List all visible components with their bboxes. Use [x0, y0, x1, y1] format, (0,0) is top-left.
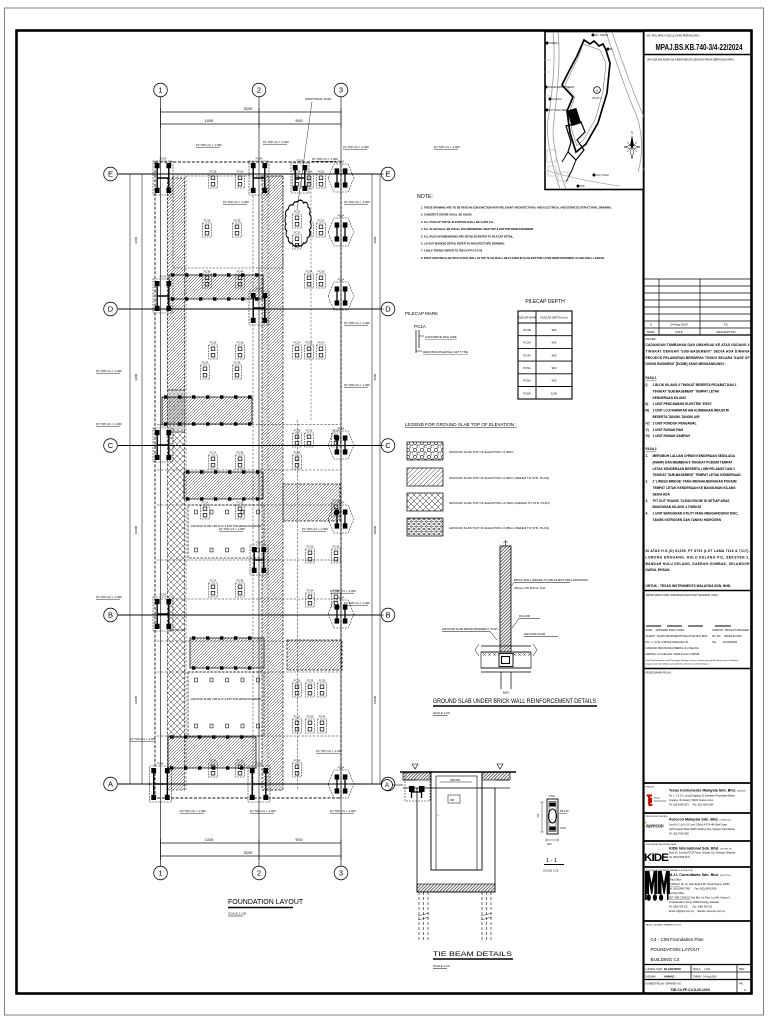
svg-text:2T16: 2T16	[549, 794, 555, 798]
svg-text:SCALE 1:20: SCALE 1:20	[433, 711, 450, 715]
slab section	[481, 646, 531, 672]
beam dim labels	[440, 781, 472, 783]
svg-text:6. LAYOUT MARKED DETAIL REFER: 6. LAYOUT MARKED DETAIL REFER TO ARCHITE…	[421, 242, 505, 246]
black site marker	[567, 108, 581, 126]
svg-text:1: 1	[158, 86, 162, 95]
svg-text:PC TOP LVL = -1.800: PC TOP LVL = -1.800	[330, 809, 356, 813]
svg-text:TEL : 03-42000000: TEL : 03-42000000	[712, 641, 738, 644]
svg-text:BUILDING C4: BUILDING C4	[651, 957, 680, 962]
svg-text:PC6A: PC6A	[338, 214, 345, 218]
svg-text:3: 3	[339, 86, 343, 95]
svg-text:B: B	[108, 611, 113, 620]
svg-text:GROUND SLAB REINFORCEMENT (TOP: GROUND SLAB REINFORCEMENT (TOP)	[442, 627, 498, 631]
svg-text:JALAN 2: JALAN 2	[552, 98, 562, 101]
slab stud symbols	[195, 510, 198, 514]
svg-text:LEGEND FOR GROUND SLAB TOP OF: LEGEND FOR GROUND SLAB TOP OF ELEVATION …	[405, 422, 517, 427]
svg-text:2 UNIT PONDOK PENGAWAL: 2 UNIT PONDOK PENGAWAL	[653, 421, 697, 425]
svg-text:TAMAN 1: TAMAN 1	[549, 42, 560, 45]
svg-text:PC TOP LVL = -1.800: PC TOP LVL = -1.800	[96, 422, 122, 426]
svg-text:900: 900	[552, 379, 557, 383]
svg-text:PC1B: PC1B	[318, 269, 325, 273]
svg-text:NOMBOR PELAN / DRAWING NO. :: NOMBOR PELAN / DRAWING NO. :	[646, 983, 684, 986]
inner room dashed rect rows E-D	[173, 176, 283, 268]
svg-text:GROUND SLAB TOP OF ELEVATION: GROUND SLAB TOP OF ELEVATION -0.050m (RE…	[449, 526, 549, 530]
svg-text:KIDE: KIDE	[644, 852, 669, 864]
svg-text:PC4A: PC4A	[307, 588, 314, 592]
dotted slab rect D1	[188, 505, 264, 558]
svg-text:PC1B: PC1B	[237, 500, 244, 504]
pilecap PC8A (4-pile)	[248, 761, 270, 802]
svg-text:PC3B: PC3B	[237, 578, 244, 582]
svg-text:PC6A: PC6A	[256, 156, 263, 160]
svg-text:E: E	[385, 170, 390, 179]
svg-text:PC TOP LVL = -1.800: PC TOP LVL = -1.800	[130, 737, 156, 741]
svg-text:pegawai tanah dah makluman yan: pegawai tanah dah makluman yang diberika…	[646, 663, 710, 666]
pilecap PC2B	[209, 340, 218, 359]
svg-text:PC6A: PC6A	[160, 592, 167, 596]
svg-text:GROUND SLAB TOP OF ELEVATION: GROUND SLAB TOP OF ELEVATION -0.050m	[449, 450, 514, 454]
svg-text:IV): IV)	[646, 421, 650, 425]
svg-text:Texas Instruments Malaysia Sdn: Texas Instruments Malaysia Sdn. Bhd. (45…	[669, 789, 746, 793]
tie beam left pilecap	[405, 773, 430, 801]
svg-text:PC TOP LVL = -1.800: PC TOP LVL = -1.800	[316, 749, 342, 753]
svg-text:PC1B: PC1B	[333, 544, 340, 548]
legend swatch diam	[407, 493, 443, 511]
svg-text:(GROUND SLAB) T&B-SL07 & BOTTO: (GROUND SLAB) T&B-SL07 & BOTTOM REINFORC…	[191, 697, 262, 701]
ground level symbols	[412, 764, 503, 769]
svg-text:9000: 9000	[295, 119, 302, 123]
svg-text:9600: 9600	[134, 373, 138, 380]
svg-text:N: N	[631, 131, 633, 135]
svg-text:PC1B: PC1B	[237, 758, 244, 762]
pilecap PC1B	[305, 218, 314, 237]
hatched bar B5 bottom	[168, 737, 256, 768]
svg-text:PC6A: PC6A	[523, 379, 530, 383]
svg-text:PC5A: PC5A	[202, 360, 209, 364]
svg-text:BANDAR HULU KELANG, DAERAH GOM: BANDAR HULU KELANG, DAERAH GOMBAK, SELAN…	[646, 562, 751, 566]
svg-text:0: 0	[650, 323, 652, 327]
svg-text:aurecon: aurecon	[646, 824, 664, 830]
svg-text:PC TOP LVL = -1.800: PC TOP LVL = -1.800	[180, 809, 206, 813]
svg-text:TARIKH MESYUARAT JAWATANKUASA: TARIKH MESYUARAT JAWATANKUASA PUSAT SETE…	[646, 594, 720, 597]
svg-text:BANGUNAN KILANG 4 TINGKAT: BANGUNAN KILANG 4 TINGKAT	[653, 505, 702, 509]
svg-text:PC5A: PC5A	[318, 169, 325, 173]
svg-text:2: 2	[257, 869, 261, 878]
svg-text:1 BLOK KILANG 4 TINGKAT BESERT: 1 BLOK KILANG 4 TINGKAT BESERTA PEJABAT …	[653, 383, 737, 387]
svg-text:PC4A: PC4A	[237, 269, 244, 273]
pilecap PC1B	[305, 428, 314, 447]
svg-text:LOC. PLAN: LOC. PLAN	[596, 174, 609, 177]
excavation outline	[417, 788, 495, 892]
svg-text:11000: 11000	[205, 838, 214, 842]
svg-text:3: 3	[339, 869, 343, 878]
pilecap PC6A (4-pile)	[250, 540, 268, 575]
svg-text:KOLAM AIRMATI SEDIA: KOLAM AIRMATI SEDIA	[548, 86, 575, 89]
pilecap PC6A (hex)	[328, 501, 354, 534]
svg-text:PC1B: PC1B	[210, 169, 217, 173]
svg-text:Ampang, Ulu Kelang, 54200, Kua: Ampang, Ulu Kelang, 54200, Kuala Lumpur,	[669, 799, 714, 802]
svg-text:GROUND SLAB TOP OF ELEVATION: GROUND SLAB TOP OF ELEVATION -0.050m (RE…	[449, 476, 549, 480]
pilecap PC1B	[236, 758, 245, 777]
legend swatch hatchL	[407, 468, 443, 486]
svg-text:PC2B: PC2B	[294, 758, 301, 762]
svg-text:750: 750	[536, 813, 540, 818]
svg-text:PILECAP DEPTH: PILECAP DEPTH	[525, 299, 565, 305]
svg-text:PC1B: PC1B	[237, 340, 244, 344]
svg-text:SG. TARUN: SG. TARUN	[595, 34, 608, 37]
svg-text:PC TOP LVL = -1.800: PC TOP LVL = -1.800	[250, 809, 276, 813]
grid bubbles bottom 1,2,3	[154, 866, 168, 880]
svg-text:E: E	[108, 170, 113, 179]
svg-text:9600: 9600	[373, 373, 377, 380]
svg-text:SCALE 1:25: SCALE 1:25	[543, 869, 559, 873]
svg-text:V): V)	[646, 428, 649, 432]
svg-text:PC TOP LVL = -1.800: PC TOP LVL = -1.800	[96, 369, 122, 373]
svg-text:'FIT OUT' RUANG 'CLEAN ROOM' D: 'FIT OUT' RUANG 'CLEAN ROOM' DI SETIAP A…	[653, 499, 730, 503]
wing lines	[403, 779, 417, 781]
svg-text:TAJUK LUKISAN / DRAWING TITLE:: TAJUK LUKISAN / DRAWING TITLE:	[646, 924, 683, 927]
pilecap PC6A (hex)	[328, 160, 354, 193]
svg-text:PC1A: PC1A	[414, 324, 426, 329]
legend swatch eggs	[407, 442, 443, 460]
svg-text:C: C	[385, 441, 391, 450]
svg-text:DISEMAK: DISEMAK	[646, 976, 657, 979]
pilecap PC1B	[317, 269, 326, 288]
svg-text:SCALE 1:100: SCALE 1:100	[228, 912, 247, 916]
svg-text:PC8A: PC8A	[256, 761, 263, 765]
svg-text:PILECAP MARK: PILECAP MARK	[517, 315, 536, 319]
svg-text:PC2A: PC2A	[318, 218, 325, 222]
svg-text:PC4A: PC4A	[294, 450, 301, 454]
svg-text:Tel: (082) 419 233 Fax:: Tel: (082) 419 233 Fax: (082) 419 233	[669, 907, 713, 909]
svg-text:PC20: PC20	[294, 230, 301, 234]
svg-text:GROUND SLAB UNDER BRICK WALL R: GROUND SLAB UNDER BRICK WALL REINFORCEME…	[433, 698, 596, 705]
svg-text:PILECAP MARK: PILECAP MARK	[405, 311, 438, 316]
svg-text:GROUND SLAB TOP OF ELEVATION: GROUND SLAB TOP OF ELEVATION +0.000m (RE…	[449, 501, 550, 505]
svg-text:SEDIA ADA: SEDIA ADA	[653, 492, 671, 496]
svg-text:PC2A: PC2A	[294, 340, 301, 344]
svg-text:DARUL EHSAN.: DARUL EHSAN.	[646, 568, 671, 572]
pilecap PC4A	[318, 714, 327, 733]
svg-text:7. CABLE TRENCH REFER TO TMI-C: 7. CABLE TRENCH REFER TO TMI-C4-FP-C4-S-…	[421, 249, 483, 253]
svg-text:450x750: 450x750	[450, 778, 461, 782]
svg-text:LETAK KENDERAAN BESERTA LOBI: LETAK KENDERAAN BESERTA LOBI PELAWAT DAN…	[653, 467, 736, 471]
svg-text:3.: 3.	[646, 499, 649, 503]
svg-text:ALAMAT : TEXAS INSTRUMENTS MAL: ALAMAT : TEXAS INSTRUMENTS MALAYSIA SDN.…	[646, 635, 709, 638]
pilecap PC2B	[306, 544, 315, 563]
svg-text:PC5A: PC5A	[202, 500, 209, 504]
revision cloud around PC20	[285, 200, 311, 246]
grid bubbles right E,D,C,B,A	[381, 167, 395, 181]
svg-text:PC TOP LVL = -1.800: PC TOP LVL = -1.800	[344, 321, 370, 325]
left dimension chains	[129, 174, 131, 784]
svg-text:TMI-C4-FP-C4-S-00-1003: TMI-C4-FP-C4-S-00-1003	[670, 988, 709, 992]
svg-text:CONCRETE PILE SIZE: CONCRETE PILE SIZE	[425, 335, 457, 339]
svg-text:PC TOP LVL = -1.800: PC TOP LVL = -1.800	[344, 601, 370, 605]
svg-text:PC TOP LVL = -1.800: PC TOP LVL = -1.800	[96, 595, 122, 599]
svg-text:1 UNIT RUMAH PAM: 1 UNIT RUMAH PAM	[653, 428, 684, 432]
pilecap PC2A	[293, 714, 302, 733]
svg-text:PC TOP LVL = -1.800: PC TOP LVL = -1.800	[223, 200, 249, 204]
svg-text:PC1B: PC1B	[306, 428, 313, 432]
hatched bar B1	[162, 397, 252, 424]
bottom dimension lines	[161, 842, 342, 844]
svg-text:∟: ∟	[437, 813, 440, 817]
svg-text:PC TOP LVL = -1.800: PC TOP LVL = -1.800	[263, 140, 289, 144]
svg-text:TARIKH 24-Aug-2024: TARIKH 24-Aug-2024	[693, 976, 717, 979]
svg-text:PC6A: PC6A	[256, 540, 263, 544]
svg-text:JAWATAN : PROJECT MANAGER: JAWATAN : PROJECT MANAGER	[712, 629, 749, 632]
svg-text:PC6A: PC6A	[338, 278, 345, 282]
svg-text:PC2A: PC2A	[523, 341, 530, 345]
svg-text:2.: 2.	[646, 480, 649, 484]
svg-text:PC6A: PC6A	[338, 160, 345, 164]
svg-text:PC20: PC20	[294, 209, 301, 213]
right panel divider	[642, 31, 644, 994]
pilecap PC2B	[293, 758, 302, 777]
svg-text:PC5A: PC5A	[210, 758, 217, 762]
svg-text:900: 900	[552, 353, 557, 357]
svg-text:III): III)	[646, 409, 650, 413]
svg-text:1 UNIT PENCAWANG ELEKTRIK 'ES: 1 UNIT PENCAWANG ELEKTRIK 'ESSV'	[653, 402, 713, 406]
svg-text:PC TOP LVL = -1.800: PC TOP LVL = -1.800	[330, 589, 356, 593]
svg-text:PC TOP LVL = -1.800: PC TOP LVL = -1.800	[302, 527, 328, 531]
pilecap PC6A (4-pile)	[153, 423, 173, 462]
svg-text:GROUND SLAB: GROUND SLAB	[524, 632, 545, 636]
svg-text:BW1: BW1	[503, 691, 510, 695]
svg-text:SCALE 1:20: SCALE 1:20	[433, 964, 450, 968]
hatched slab bands	[403, 772, 431, 780]
svg-text:PC6A: PC6A	[256, 286, 263, 290]
pilecap PC3B	[306, 714, 315, 733]
pilecap PC3B	[236, 578, 245, 597]
svg-text:PC2B: PC2B	[294, 428, 301, 432]
svg-text:28000: 28000	[373, 525, 377, 534]
svg-text:NO. K/P : 000000-00-0000: NO. K/P : 000000-00-0000	[712, 635, 742, 638]
MJI logo (ornate)	[645, 871, 670, 901]
pilecap PC4A	[306, 588, 315, 607]
svg-text:NOTE:: NOTE:	[417, 194, 433, 200]
svg-text:PC TOP LVL = -1.800: PC TOP LVL = -1.800	[344, 200, 370, 204]
svg-text:D: D	[108, 305, 114, 314]
beam inner rect	[431, 772, 482, 870]
svg-text:Tel: (603) 5636 8717: Tel: (603) 5636 8717	[669, 857, 691, 859]
svg-text:C: C	[108, 441, 114, 450]
svg-text:PENGURUS PROJEK:: PENGURUS PROJEK:	[646, 816, 669, 818]
svg-text:900: 900	[552, 341, 557, 345]
compass rose	[624, 131, 640, 160]
svg-text:900: 900	[450, 798, 455, 802]
inner wall line at x=186	[185, 176, 187, 790]
svg-text:PC2A: PC2A	[210, 578, 217, 582]
svg-text:Instruments: Instruments	[654, 799, 667, 802]
svg-text:9600: 9600	[373, 236, 377, 243]
pilecap PC5A	[317, 169, 326, 188]
hatched bar B2	[184, 472, 263, 499]
bar edge studs	[171, 273, 174, 276]
map roads	[548, 32, 561, 189]
svg-text:PC2A: PC2A	[237, 169, 244, 173]
svg-text:PC1B: PC1B	[319, 678, 326, 682]
svg-text:AMPANG, ULU KELANG, 54200 KUAL: AMPANG, ULU KELANG, 54200 KUALA LUMPUR.	[646, 653, 701, 656]
hatched bar B4b right	[287, 640, 342, 670]
PC TOP LVL labels	[196, 143, 222, 147]
svg-text:MARK: MARK	[647, 330, 655, 334]
svg-text:(RAMP) DAN MEMBINA 6 TINGKAT P: (RAMP) DAN MEMBINA 6 TINGKAT PODIUM TEMP…	[653, 460, 733, 464]
svg-text:PC TOP LVL = -1.800: PC TOP LVL = -1.800	[219, 527, 245, 531]
hatched bar B4	[190, 638, 264, 668]
building outline (dashed perimeter)	[155, 162, 341, 798]
svg-text:PILECAP DEPTH (mm): PILECAP DEPTH (mm)	[540, 315, 567, 319]
svg-text:I): I)	[646, 383, 648, 387]
svg-text:R10-200: R10-200	[519, 614, 530, 618]
pilecap PC1B	[209, 169, 218, 188]
svg-text:BRICK WALL (REFER TO ARCHITECT: BRICK WALL (REFER TO ARCHITECTURAL DRAWI…	[514, 578, 588, 582]
svg-text:PC3B: PC3B	[307, 714, 314, 718]
pilecap PC2A	[332, 428, 341, 447]
pilecap PC5A	[332, 588, 341, 607]
bottom lean concrete hatched band	[417, 884, 495, 892]
pilecap PC3B	[203, 269, 212, 288]
svg-text:PC6A: PC6A	[338, 427, 345, 431]
svg-text:FASA 2: FASA 2	[646, 447, 657, 451]
svg-text:PROJECK PELABURAN BERIMPAK TIN: PROJECK PELABURAN BERIMPAK TINGGI SECARA…	[646, 356, 750, 360]
svg-text:KENDERAAN KILANG: KENDERAAN KILANG	[653, 396, 687, 400]
svg-text:20000: 20000	[244, 851, 253, 855]
pilecap PC6A (4-pile)	[153, 592, 173, 631]
svg-text:4: 4	[596, 89, 598, 93]
central hatched strip along grid 2	[262, 176, 283, 790]
svg-text:D: D	[385, 305, 391, 314]
svg-text:TANGKI NITROGEN DAN TANGKI HID: TANGKI NITROGEN DAN TANGKI HIDROGEN	[653, 518, 722, 522]
corridor dashed lines	[157, 424, 340, 426]
svg-text:DESCRIPTION: DESCRIPTION	[716, 330, 735, 334]
svg-text:2. CONCRETE GRADE SHALL BE G35: 2. CONCRETE GRADE SHALL BE G35/20.	[421, 213, 472, 217]
pilecap PC2B	[233, 218, 242, 237]
svg-text:900: 900	[552, 328, 557, 332]
map background blocks	[547, 150, 556, 162]
svg-text:Saya Pihak berkenaan, untuk: Saya Pihak berkenaan, untuk Perumahan Se…	[646, 659, 738, 662]
svg-text:MPAJ.BS.KB.740-3/4-22/2024: MPAJ.BS.KB.740-3/4-22/2024	[656, 43, 744, 52]
pilecap PC5A	[201, 360, 210, 379]
svg-text:A: A	[385, 783, 389, 789]
svg-text:1.: 1.	[646, 454, 649, 458]
svg-text:PC8A: PC8A	[157, 761, 164, 765]
grid bubble A at tie beam	[382, 780, 393, 791]
svg-text:Level A-2-1 & A-2-5 Level 2 Bl: Level A-2-1 & A-2-5 Level 2 Block A PJX-…	[669, 824, 728, 827]
svg-text:MEROBOH LALUAN CHRUN KENDERAAN: MEROBOH LALUAN CHRUN KENDERAAN SEDIA ADA	[653, 454, 736, 458]
svg-text:Texas: Texas	[654, 798, 661, 800]
svg-text:FASA 1: FASA 1	[646, 376, 657, 380]
svg-text:DATE: DATE	[675, 330, 682, 334]
svg-text:PC2A: PC2A	[210, 450, 217, 454]
svg-text:PENGESAHAN PELAN :: PENGESAHAN PELAN :	[646, 672, 673, 675]
svg-text:DI ATAS H.S.(D) 81290, PT 8791: DI ATAS H.S.(D) 81290, PT 8791 (LOT LAMA…	[646, 549, 750, 553]
break marks	[475, 644, 537, 656]
pilecap PC2A	[293, 340, 302, 359]
svg-text:PC TOP LVL = -1.800: PC TOP LVL = -1.800	[344, 383, 370, 387]
signature dashes	[646, 625, 731, 627]
svg-text:PC8A: PC8A	[338, 766, 345, 770]
svg-text:C4 - C08 Foundation Plan: C4 - C08 Foundation Plan	[651, 937, 705, 942]
svg-text:PC TOP LVL = -1.800: PC TOP LVL = -1.800	[312, 157, 338, 161]
svg-text:Email: mji@mjic.com.my Web: Email: mji@mjic.com.my Website: www.mjic…	[669, 910, 726, 913]
svg-text:1: 1	[158, 869, 162, 878]
pilecap PC2A	[236, 169, 245, 188]
pilecap PC6A (hex)	[328, 596, 354, 629]
pilecap PC2B	[306, 678, 315, 697]
svg-text:FOUNDATION LAYOUT: FOUNDATION LAYOUT	[228, 899, 304, 906]
svg-text:PC3B: PC3B	[204, 269, 211, 273]
pilecap PC20	[293, 209, 302, 228]
svg-text:1200: 1200	[551, 391, 558, 395]
svg-text:PC2B: PC2B	[307, 544, 314, 548]
svg-text:20000: 20000	[244, 107, 253, 111]
grid bubbles left E,D,C,B,A	[104, 167, 118, 181]
svg-text:230mm OR 115mm THK: 230mm OR 115mm THK	[514, 586, 546, 590]
svg-text:PC5A: PC5A	[306, 269, 313, 273]
svg-text:PC5A: PC5A	[523, 366, 530, 370]
svg-text:LUKISAN OLEH: LUKISAN OLEH	[646, 968, 663, 971]
svg-text:BESERTA TANGKI-TANGKI AIR: BESERTA TANGKI-TANGKI AIR	[653, 415, 701, 419]
svg-text:PC4A: PC4A	[523, 353, 530, 357]
svg-text:PC TOP LVL = -1.800: PC TOP LVL = -1.800	[434, 145, 460, 149]
svg-text:24-Aug-2024: 24-Aug-2024	[670, 323, 688, 327]
pilecap PC6A (4-pile)	[153, 156, 173, 195]
top dimension lines	[161, 111, 342, 113]
svg-text:PC2B: PC2B	[234, 218, 241, 222]
svg-text:PC2B: PC2B	[210, 340, 217, 344]
grid bubbles top 1,2,3	[154, 83, 168, 97]
svg-text:1. THESE DRAWING ARE TO BE REA: 1. THESE DRAWING ARE TO BE READ IN CONJU…	[421, 206, 612, 210]
pilecap PC1B	[236, 500, 245, 519]
pilecap PC4A	[293, 450, 302, 469]
pilecap PC1B	[332, 498, 341, 517]
pilecap PC6A (hex)	[328, 214, 354, 247]
svg-text:12000: 12000	[373, 695, 377, 704]
svg-text:PC6A: PC6A	[160, 274, 167, 278]
svg-text:PC6A: PC6A	[160, 156, 167, 160]
svg-text:4.: 4.	[646, 512, 649, 516]
svg-text:1 UNIT LOJI RAWATAN AIR KUMBAH: 1 UNIT LOJI RAWATAN AIR KUMBAHAN INDUSTR…	[653, 409, 730, 413]
pilecap PC2A	[317, 218, 326, 237]
svg-text:9600: 9600	[134, 236, 138, 243]
svg-text:DOING BUSINESS' [EODB] YANG ME: DOING BUSINESS' [EODB] YANG MENGANDUNGI …	[646, 362, 726, 366]
svg-text:PC8A: PC8A	[523, 391, 530, 395]
svg-text:PC6A: PC6A	[338, 501, 345, 505]
svg-text:TIE BEAM DETAILS: TIE BEAM DETAILS	[433, 951, 512, 958]
inner dashed verticals	[252, 176, 254, 790]
svg-text:ADDITIONAL PC20: ADDITIONAL PC20	[305, 97, 332, 101]
pilecap PC1B	[236, 340, 245, 359]
svg-text:NO. FAIL MPAJ / KELULUSAN PERA: NO. FAIL MPAJ / KELULUSAN PERANCANG :	[647, 34, 701, 38]
pilecap PC8A (hex)	[328, 766, 354, 799]
pilecap PC5A	[209, 758, 218, 777]
svg-text:No. 1, 7 & 10, Lorong Enggang: No. 1, 7 & 10, Lorong Enggang 33, Kawasa…	[669, 795, 736, 798]
svg-text:B: B	[385, 611, 390, 620]
pilecap PC1B	[318, 678, 327, 697]
svg-text:II): II)	[646, 402, 649, 406]
svg-text:FOUNDATION LAYOUT: FOUNDATION LAYOUT	[651, 947, 701, 952]
tie beam top slab line	[400, 771, 516, 773]
svg-text:PLOT 4: PLOT 4	[592, 96, 602, 100]
hatched bar B0 below row D	[169, 275, 263, 299]
svg-text:BLANC/MJIC: BLANC/MJIC	[664, 967, 681, 971]
svg-text:PC4A: PC4A	[318, 340, 325, 344]
svg-text:Tel: (03) 4206 6071 Fax:: Tel: (03) 4206 6071 Fax: (03) 4208 6190	[669, 804, 714, 806]
svg-text:A: A	[108, 780, 113, 789]
pilecap PC2A	[209, 578, 218, 597]
